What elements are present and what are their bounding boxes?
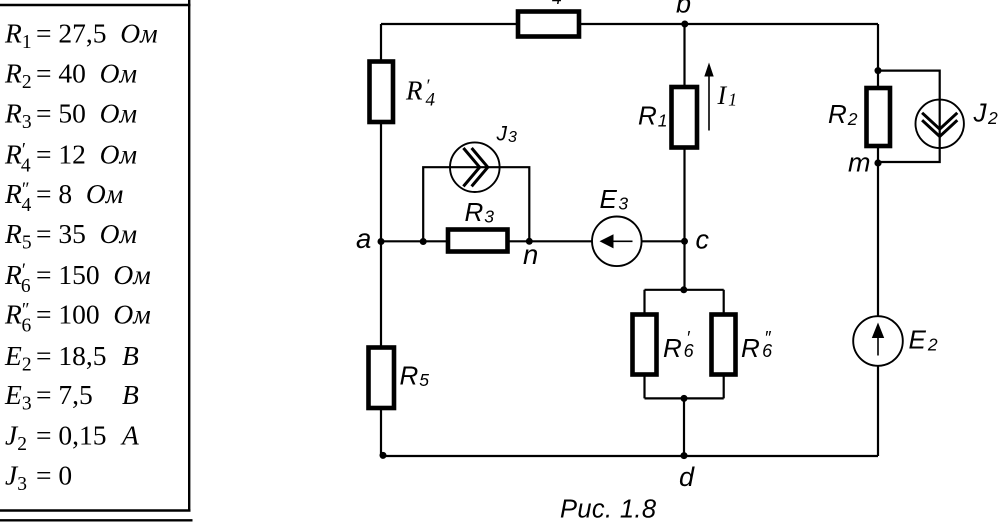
wire branch b-c: node b down through R1 to node c (683, 24, 685, 241)
emf source E3 arrow (611, 240, 633, 242)
wire R6 parallel left branch (643, 290, 645, 399)
svg-text:E2= 18,5В: E2= 18,5В (4, 340, 139, 376)
svg-text:c: c (696, 225, 710, 255)
resistor R2 (867, 88, 891, 146)
svg-text:Рис. 1.8: Рис. 1.8 (560, 496, 657, 522)
current source J2 circle (916, 100, 964, 148)
wire R6 bottom node to node d (683, 398, 685, 456)
node c (681, 238, 688, 245)
wire bottom: bottom-left corner to bottom-right corner through node d (381, 455, 878, 457)
svg-text:R′6= 150 Ом: R′6= 150 Ом (4, 259, 151, 297)
svg-text:R3= 50 Ом: R3= 50 Ом (4, 98, 137, 134)
node b (681, 21, 688, 28)
svg-text:n: n (523, 239, 538, 270)
wire a-n-c: horizontal middle wire through R3 and E3 (381, 240, 685, 242)
svg-text:J3= 0: J3= 0 (5, 460, 72, 496)
junction R6 top (680, 286, 687, 293)
svg-text:E3: E3 (600, 184, 629, 214)
svg-text:m: m (848, 148, 871, 178)
svg-text:R′4= 12 Ом: R′4= 12 Ом (4, 138, 137, 176)
wire left vertical: top-left corner down through R4', node a, R5 to bottom-left (380, 24, 382, 456)
wire c to R6 top node (683, 241, 685, 289)
resistor R1 (672, 87, 698, 148)
svg-text:R′6: R′6 (663, 328, 695, 363)
svg-text:I1: I1 (717, 81, 738, 110)
wire R6 parallel right branch (723, 290, 725, 399)
junction bottom-left (380, 452, 387, 459)
parameter table text (4, 17, 158, 495)
junction J3 loop left (420, 238, 427, 245)
resistor R4'' (top, label cut off) (518, 12, 579, 37)
svg-text:R3: R3 (465, 197, 495, 227)
svg-text:R″4= 8 Ом: R″4= 8 Ом (4, 178, 123, 216)
wire top: a-corner to right corner through R4'' and node b (381, 23, 878, 25)
svg-text:R5: R5 (400, 361, 430, 391)
current source J2 double chevron (922, 113, 957, 129)
node d (681, 452, 688, 459)
wire J2 loop (878, 71, 940, 162)
svg-text:R′4: R′4 (405, 76, 435, 111)
resistor R4' (370, 62, 394, 123)
svg-text:b: b (676, 0, 691, 19)
svg-text:R5= 35 Ом: R5= 35 Ом (4, 218, 137, 254)
wire right vertical: top-right corner down through R2, m, E2 (877, 24, 879, 456)
svg-text:R2: R2 (828, 99, 858, 129)
svg-text:J2: J2 (973, 98, 999, 129)
wire J3 loop (423, 167, 529, 241)
svg-text:a: a (356, 223, 371, 254)
wire R6 bottom connector (645, 397, 724, 399)
svg-text:J3: J3 (496, 123, 518, 147)
junction J2 loop top (875, 67, 882, 74)
node n (526, 238, 533, 245)
resistor R6'' (712, 315, 736, 375)
resistor R6' (633, 315, 657, 375)
emf source E3 circle (592, 217, 642, 267)
svg-text:R1= 27,5 Ом: R1= 27,5 Ом (4, 17, 158, 53)
current arrow I1 (708, 75, 710, 131)
svg-text:J2= 0,15А: J2= 0,15А (5, 420, 139, 456)
svg-text:R1: R1 (638, 101, 668, 131)
wire R6 top connector (645, 289, 724, 291)
current source J3 circle (450, 142, 500, 192)
parameter table border (0, 0, 193, 520)
node m (874, 159, 881, 166)
node a (378, 238, 385, 245)
resistor R5 (369, 348, 395, 409)
resistor R3 (448, 230, 508, 252)
svg-text:R2= 40 Ом: R2= 40 Ом (4, 57, 137, 93)
svg-text:d: d (679, 462, 695, 492)
junction R6 bottom (681, 395, 688, 402)
current source J3 double chevron (463, 148, 479, 186)
svg-text:E3= 7,5В: E3= 7,5В (4, 379, 139, 415)
emf source E2 circle (853, 316, 903, 366)
svg-text:E2: E2 (909, 325, 938, 355)
emf source E2 arrow (877, 337, 879, 356)
svg-text:R″6= 100 Ом: R″6= 100 Ом (4, 299, 151, 337)
svg-text:R″4: R″4 (530, 0, 562, 9)
svg-text:R″6: R″6 (741, 328, 773, 363)
